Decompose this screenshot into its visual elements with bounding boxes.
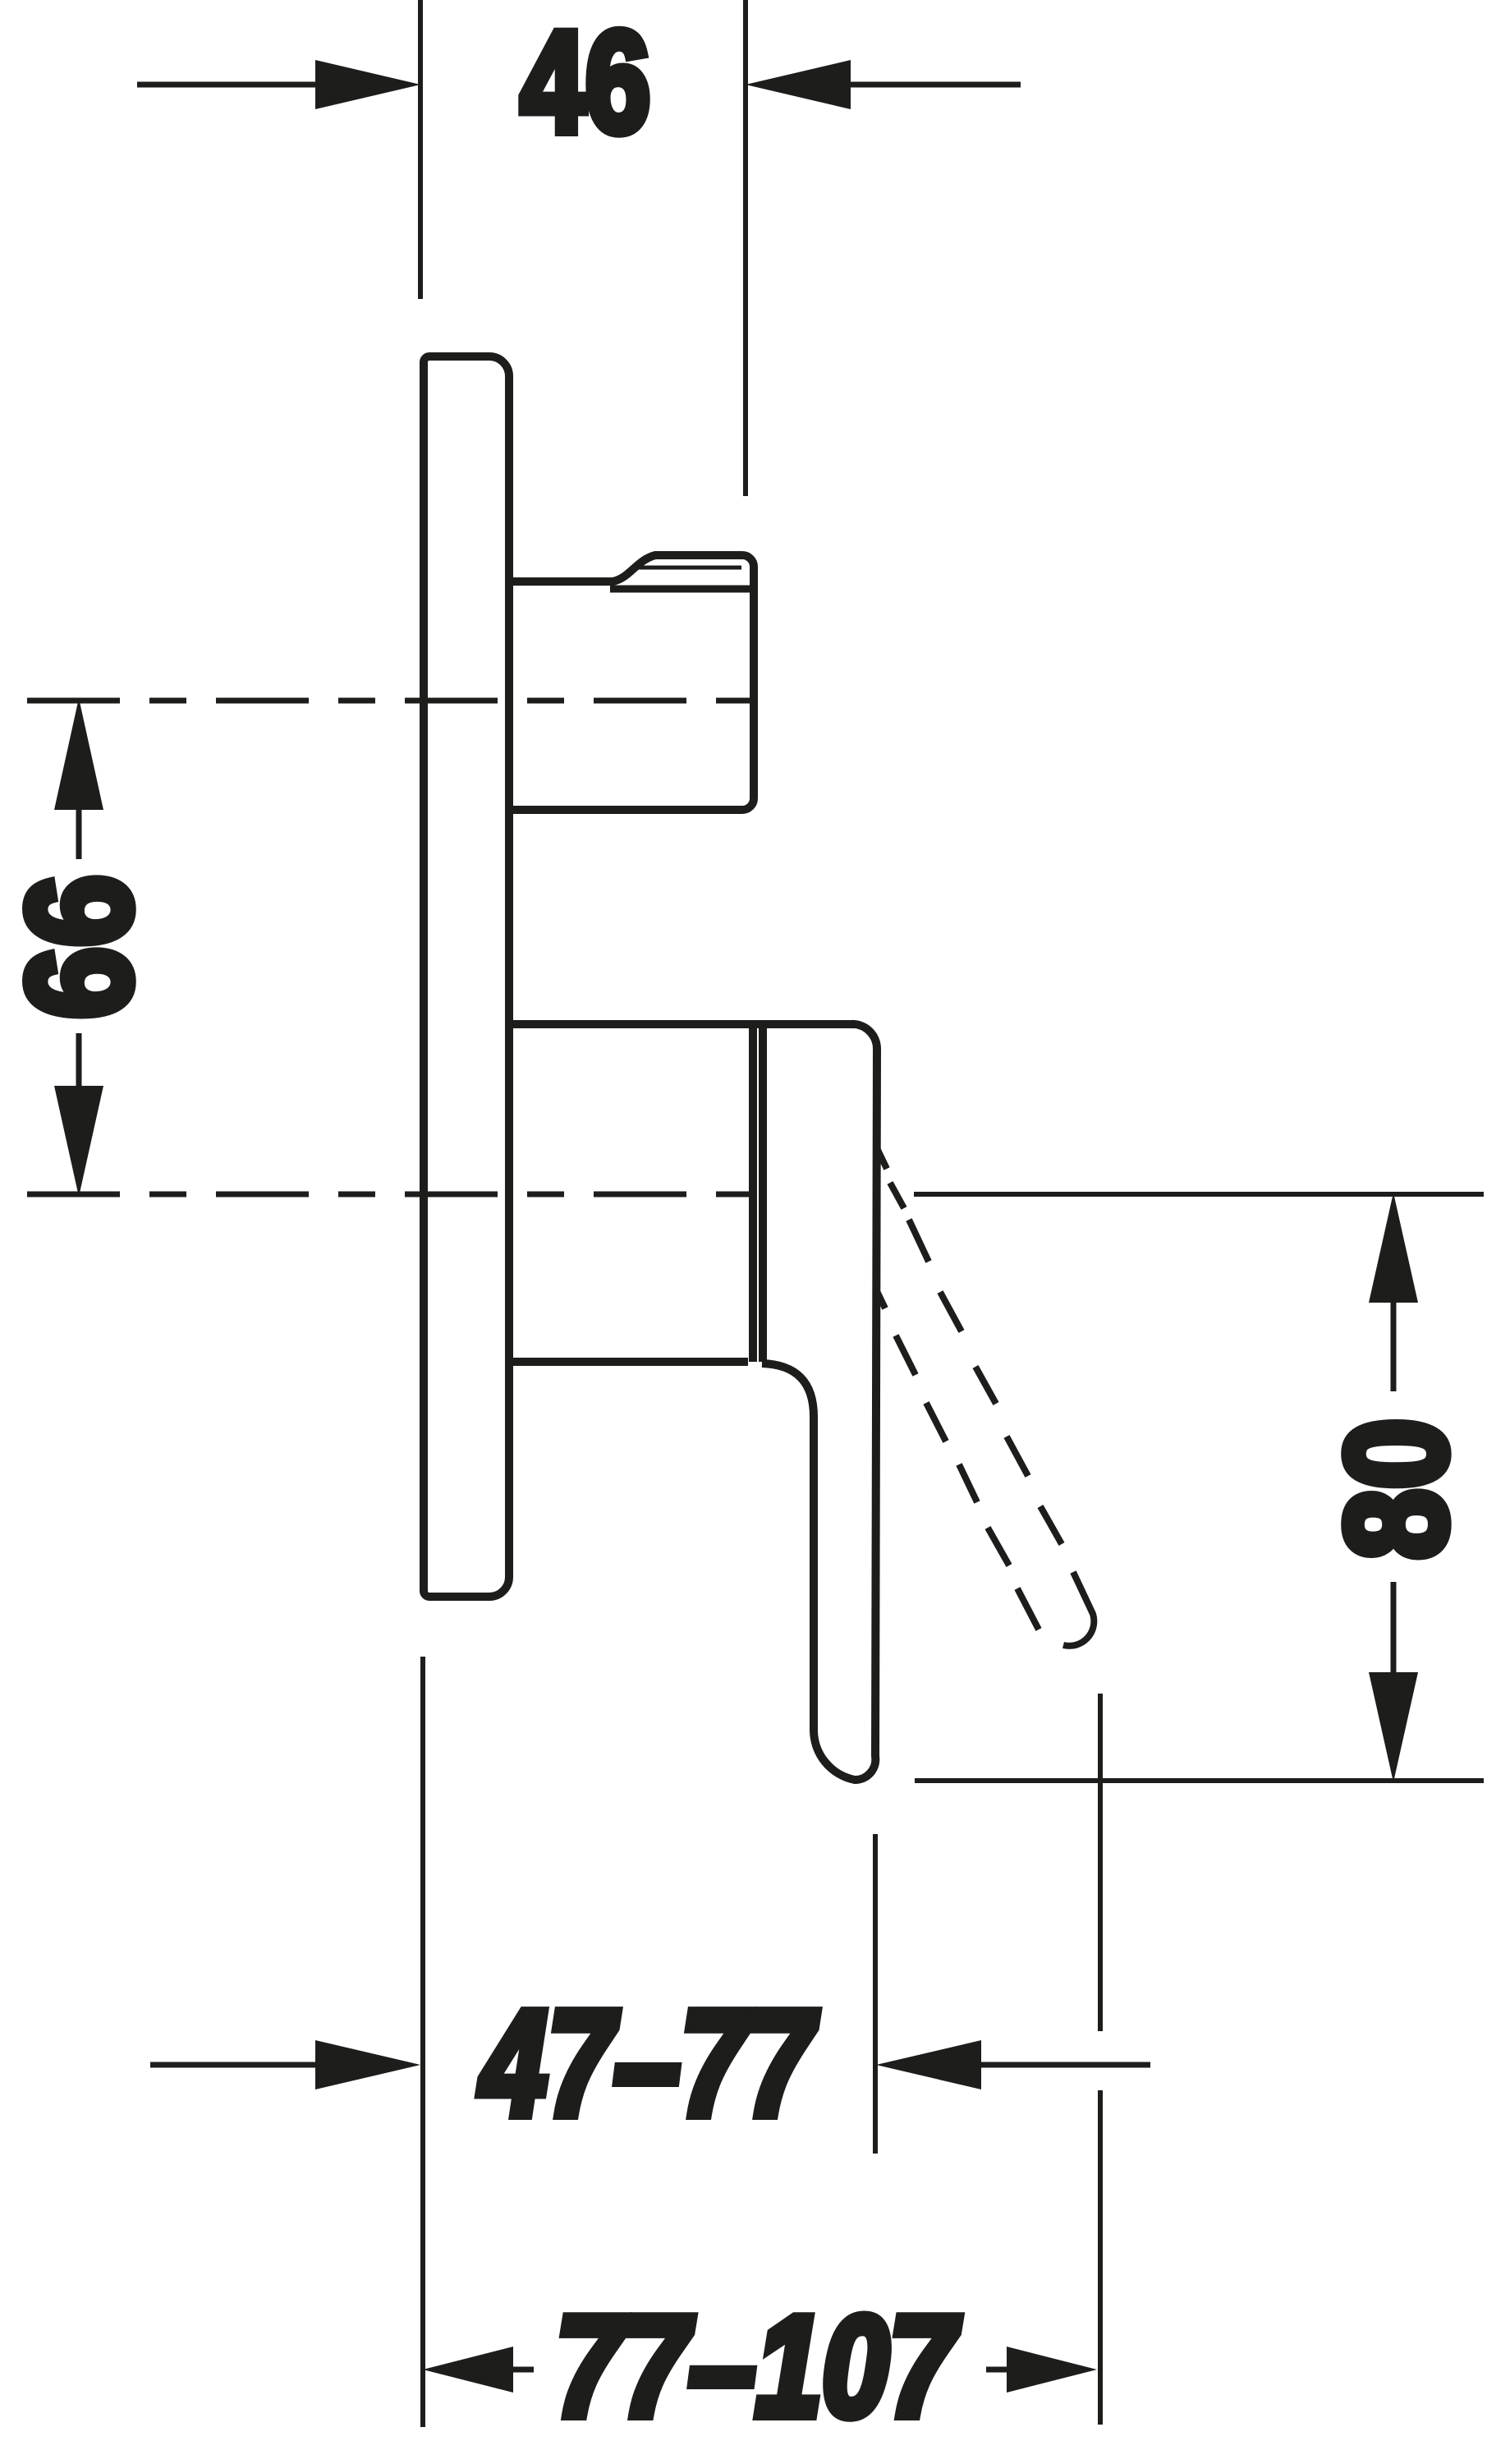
svg-text:77–107: 77–107: [556, 2286, 961, 2446]
extension line bottom left (wall face): [420, 1657, 425, 2427]
dim 46 left arrow: [137, 82, 322, 88]
dim 66 bottom arrow: [76, 1033, 82, 1086]
dim 77-107 right arrow: [986, 2367, 1007, 2373]
extension line dashed-lever tip (upper part): [1098, 1694, 1103, 2031]
body/handle joint line 2: [759, 1024, 767, 1362]
dim 47-77 left arrow: [150, 2062, 322, 2068]
lower body bottom edge: [509, 1358, 748, 1366]
extension line lever tip: [873, 1834, 878, 2154]
upper knob outline: top silhouette, rise curve, lip top, right edge, bottom: [509, 555, 754, 810]
svg-text:47–77: 47–77: [478, 1979, 818, 2147]
dim 46 right arrow: [846, 82, 1021, 88]
upper knob under-lip thin line: [634, 566, 741, 570]
dim 66 top arrow: [54, 698, 103, 810]
dashed lever end cap hook: [1063, 1572, 1094, 1646]
wall plate: [424, 356, 509, 1597]
dim 80 bottom arrow: [1391, 1582, 1397, 1672]
extension line dashed-lever tip (lower part): [1098, 2090, 1103, 2425]
dashed lever (raised position) right edge dashes: [878, 1150, 1062, 1544]
extension line top-right (knob tip): [743, 0, 748, 496]
centerline lower body: [27, 1192, 751, 1198]
dim 77-107 left arrow: [423, 2347, 513, 2393]
centerline upper knob: [27, 698, 751, 704]
svg-text:80: 80: [1316, 1418, 1476, 1560]
svg-text:46: 46: [521, 2, 650, 163]
extension line 80 top: [914, 1192, 1484, 1197]
extension line 80 bottom: [915, 1778, 1484, 1783]
svg-text:66: 66: [0, 875, 161, 1019]
lever handle solid outline: [762, 1024, 877, 1780]
body/handle joint line 1: [749, 1024, 757, 1362]
extension line top-left (plate wall face): [418, 0, 423, 299]
dim 80 top arrow: [1369, 1193, 1418, 1303]
upper knob front rim: [610, 586, 750, 593]
dashed lever left edge dashes: [876, 1289, 1039, 1630]
dim 47-77 right arrow: [876, 2040, 981, 2089]
lower body top edge: [509, 1020, 854, 1028]
